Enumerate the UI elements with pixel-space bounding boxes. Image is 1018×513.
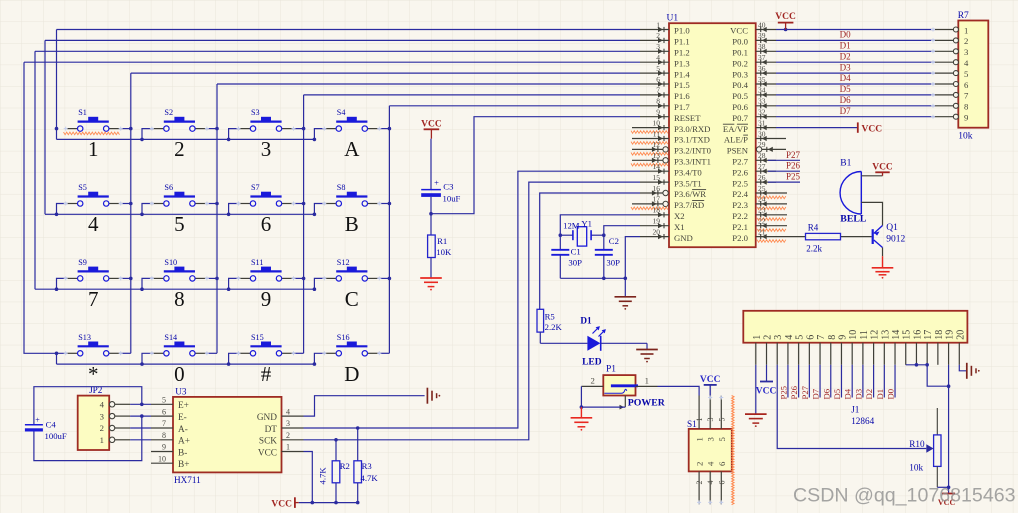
- svg-text:1: 1: [286, 443, 290, 452]
- wire S11 right link: [292, 277, 304, 279]
- switch S15: [237, 333, 296, 356]
- wire P1.3 bus: [24, 61, 640, 63]
- wire J1 pin5 stub: [798, 365, 800, 398]
- pin 14 U1 P3.4/T0: [640, 162, 702, 177]
- svg-text:C2: C2: [609, 236, 619, 246]
- wire D0: [776, 39, 935, 41]
- switch block S1 body: [689, 429, 732, 472]
- wire C4 bottom loop: [34, 416, 142, 461]
- wire S14 left stub: [142, 353, 153, 364]
- connector J1 body: [743, 311, 967, 343]
- svg-text:9012: 9012: [886, 235, 905, 245]
- wire D6: [776, 105, 935, 107]
- svg-text:HX711: HX711: [174, 475, 201, 485]
- svg-text:D2: D2: [864, 389, 874, 400]
- svg-text:11: 11: [653, 129, 660, 138]
- wire D2: [776, 61, 935, 63]
- error squiggle pin 17: [631, 207, 668, 210]
- svg-text:6: 6: [656, 75, 660, 84]
- switch S9: [64, 258, 123, 281]
- svg-text:VCC: VCC: [730, 26, 748, 36]
- svg-text:VCC: VCC: [271, 499, 292, 509]
- svg-text:D1: D1: [875, 389, 885, 400]
- svg-text:18: 18: [653, 206, 661, 215]
- led D1: [580, 316, 606, 368]
- node C2 bottom: [602, 277, 606, 281]
- svg-text:4: 4: [784, 335, 795, 340]
- svg-text:D1: D1: [840, 41, 851, 51]
- svg-text:8: 8: [964, 102, 969, 112]
- svg-text:14: 14: [653, 162, 661, 171]
- svg-text:9: 9: [964, 113, 968, 123]
- wire keypad column 1: [130, 73, 132, 353]
- svg-text:7: 7: [656, 86, 660, 95]
- pin 10 J1: [848, 330, 859, 365]
- svg-text:1: 1: [695, 418, 704, 422]
- svg-text:P3.3/INT1: P3.3/INT1: [674, 157, 711, 167]
- wire J1 pin13 stub: [883, 365, 885, 398]
- pin 32 U1 P0.7: [732, 108, 776, 123]
- svg-text:6: 6: [805, 335, 816, 340]
- pin 24 U1 P2.3: [732, 195, 787, 210]
- svg-text:6: 6: [964, 80, 969, 90]
- svg-text:8: 8: [656, 97, 660, 106]
- pin 11 U1 P3.1/TXD: [632, 129, 710, 144]
- svg-text:8: 8: [162, 431, 166, 440]
- svg-text:P2.1: P2.1: [732, 222, 748, 232]
- svg-text:E-: E-: [178, 413, 187, 423]
- svg-text:BELL: BELL: [840, 213, 867, 224]
- svg-text:22: 22: [758, 217, 766, 226]
- pin 7 J1: [816, 335, 827, 365]
- svg-text:6: 6: [717, 481, 726, 485]
- wire Q1 emitter to ground: [882, 248, 884, 257]
- svg-text:7: 7: [964, 91, 969, 101]
- svg-text:D3: D3: [853, 389, 863, 400]
- svg-text:P25: P25: [778, 386, 788, 400]
- pin 23 U1 P2.2: [732, 206, 787, 221]
- svg-text:P0.7: P0.7: [732, 113, 748, 123]
- svg-text:SCK: SCK: [259, 437, 277, 447]
- pin 10 U1 P3.0/RXD: [632, 118, 710, 133]
- svg-text:0: 0: [174, 362, 185, 386]
- svg-text:9: 9: [162, 443, 166, 452]
- switch S4: [322, 108, 381, 131]
- wire P1.1 bus: [45, 39, 640, 41]
- pin 18 U1 X2: [640, 206, 685, 221]
- pin 30 U1 ALE/P: [724, 129, 786, 144]
- svg-text:3: 3: [261, 137, 272, 161]
- svg-text:P3.5/T1: P3.5/T1: [674, 178, 702, 188]
- svg-text:D: D: [344, 362, 359, 386]
- svg-text:P27: P27: [786, 150, 801, 160]
- svg-text:P1.1: P1.1: [674, 37, 690, 47]
- svg-text:2: 2: [695, 481, 704, 485]
- pin 40 U1 VCC: [730, 20, 776, 35]
- svg-text:26: 26: [758, 173, 766, 182]
- svg-text:P26: P26: [789, 385, 799, 399]
- wire keypad row 1: [56, 30, 58, 140]
- wire bell bottom to Q1: [861, 202, 882, 225]
- svg-text:C1: C1: [571, 247, 581, 257]
- svg-text:S11: S11: [251, 258, 263, 267]
- pin 5 U1 P1.4: [640, 64, 690, 79]
- svg-text:Y1: Y1: [581, 219, 592, 229]
- svg-text:4.7K: 4.7K: [318, 467, 328, 485]
- wire to ground: [624, 278, 626, 297]
- svg-text:D7: D7: [811, 388, 821, 399]
- node gnd rail: [624, 277, 628, 281]
- wire J1 pin19 to VCC: [948, 365, 950, 494]
- svg-text:VCC: VCC: [862, 124, 883, 134]
- svg-text:10: 10: [158, 454, 166, 463]
- wire P3.4/T0 to HX711 DT: [304, 171, 641, 428]
- error squiggle pin 11: [631, 142, 668, 145]
- pin 3 J1: [773, 335, 784, 365]
- wire S10 right link: [205, 277, 217, 279]
- pin 21 U1 P2.0: [732, 227, 805, 242]
- svg-text:4: 4: [656, 53, 660, 62]
- svg-text:U1: U1: [667, 14, 679, 24]
- svg-text:GND: GND: [257, 413, 277, 423]
- svg-text:D3: D3: [840, 62, 851, 72]
- svg-text:36: 36: [758, 64, 766, 73]
- svg-text:LED: LED: [582, 358, 602, 368]
- svg-text:3: 3: [656, 42, 660, 51]
- svg-text:4: 4: [706, 481, 715, 485]
- node C3/R1: [429, 212, 433, 216]
- pin 5 U3 E+: [151, 396, 189, 412]
- ground R1: [420, 278, 442, 291]
- svg-text:P1.5: P1.5: [674, 80, 690, 90]
- pin 12 J1: [870, 330, 881, 365]
- svg-text:VCC: VCC: [421, 120, 442, 130]
- pin 35 U1 P0.4: [732, 75, 776, 90]
- ground J1 pin1: [745, 414, 767, 427]
- svg-text:38: 38: [758, 42, 766, 51]
- wire LED to ground: [601, 342, 647, 344]
- ground Q1: [872, 256, 894, 278]
- svg-text:S4: S4: [337, 108, 346, 117]
- wire J1 pin7 stub: [819, 365, 821, 398]
- pin 4 S1 bottom: [709, 471, 711, 504]
- pin 7 U1 P1.6: [640, 86, 690, 101]
- svg-text:P3.7/RD: P3.7/RD: [674, 200, 704, 210]
- resistor R1: [428, 214, 452, 278]
- pin 3 S1 top: [709, 396, 711, 429]
- wire J1 pin14 stub: [894, 365, 896, 398]
- pin 4 U1 P1.3: [640, 53, 690, 68]
- svg-text:P27: P27: [800, 385, 810, 399]
- wire J1 pin2: [766, 365, 768, 382]
- svg-text:6: 6: [162, 407, 166, 416]
- pin 6 U3 E-: [151, 407, 187, 423]
- svg-text:P0.4: P0.4: [732, 80, 748, 90]
- wire S1 right link: [119, 128, 131, 130]
- svg-text:15: 15: [902, 330, 913, 340]
- wire bell top to VCC: [861, 175, 882, 177]
- pin 17 U1 P3.7/RD: [632, 195, 704, 210]
- svg-text:19: 19: [653, 217, 661, 226]
- wire P1.5 bus: [217, 83, 640, 85]
- wire D5: [776, 94, 935, 96]
- wire JP2-4 to E+: [130, 403, 151, 405]
- power VCC top right: [775, 12, 796, 29]
- svg-text:P1.4: P1.4: [674, 69, 690, 79]
- svg-text:R5: R5: [545, 311, 555, 321]
- pin 8 U3 A+: [151, 431, 190, 447]
- svg-text:D1: D1: [580, 316, 592, 326]
- svg-text:P3.2/INT0: P3.2/INT0: [674, 146, 712, 156]
- capacitor C4: [25, 415, 67, 441]
- svg-text:12864: 12864: [851, 416, 874, 426]
- chip U3 body: [173, 397, 282, 473]
- svg-text:2: 2: [100, 423, 104, 433]
- svg-text:5: 5: [162, 396, 166, 405]
- svg-text:S15: S15: [251, 333, 264, 342]
- pin 10 U3 B+: [151, 454, 189, 470]
- wire S15 left stub: [229, 353, 240, 364]
- pin 8 J1: [827, 335, 838, 365]
- svg-text:P0.2: P0.2: [732, 58, 748, 68]
- pin 2 J1: [763, 335, 774, 365]
- pin 2 U3 SCK: [259, 431, 304, 447]
- svg-text:C: C: [345, 287, 359, 311]
- wire GND pin20: [625, 237, 640, 279]
- svg-text:11: 11: [859, 330, 870, 340]
- svg-text:10K: 10K: [436, 247, 452, 257]
- pin 20 U1 GND: [640, 227, 693, 242]
- resistor R4: [806, 223, 841, 254]
- pin 16 J1: [912, 330, 923, 365]
- resistor R2: [318, 440, 350, 503]
- wire R4 to Q1 base: [841, 236, 872, 238]
- svg-text:P1.2: P1.2: [674, 48, 690, 58]
- svg-text:15: 15: [653, 173, 661, 182]
- svg-text:#: #: [261, 362, 272, 386]
- capacitor C3: [421, 177, 460, 213]
- svg-text:20: 20: [653, 227, 661, 236]
- wire P26: [768, 170, 800, 172]
- wire P1.6 bus: [304, 94, 640, 96]
- svg-text:D2: D2: [840, 51, 851, 61]
- pin 4 U3 GND: [257, 407, 304, 423]
- pin 20 J1: [955, 330, 966, 365]
- wire S3 left stub: [229, 129, 240, 140]
- error squiggle pin 23: [757, 218, 786, 221]
- svg-text:30P: 30P: [606, 258, 620, 268]
- wire S4 left stub: [314, 129, 325, 140]
- svg-text:A-: A-: [178, 425, 188, 435]
- svg-text:5: 5: [795, 335, 806, 340]
- pin 2 S1 bottom: [698, 471, 700, 504]
- power VCC bell: [872, 162, 893, 176]
- svg-text:16: 16: [912, 330, 923, 340]
- wire P25: [768, 181, 800, 183]
- svg-text:3: 3: [773, 335, 784, 340]
- wire keypad row 3: [34, 51, 36, 289]
- svg-text:10: 10: [848, 330, 859, 340]
- resistor R3: [354, 428, 378, 503]
- switch S2: [150, 108, 209, 131]
- wire U3 VCC: [304, 452, 313, 503]
- node E-: [140, 414, 144, 418]
- svg-text:5: 5: [656, 64, 660, 73]
- wire D1: [776, 50, 935, 52]
- svg-text:E+: E+: [178, 401, 189, 411]
- node VCC pin40: [784, 28, 788, 32]
- svg-text:2: 2: [763, 335, 774, 340]
- svg-text:9: 9: [261, 287, 272, 311]
- pin 6 U1 P1.5: [640, 75, 690, 90]
- pin 16 U1 P3.6/WR: [640, 184, 706, 199]
- svg-text:Q1: Q1: [886, 223, 898, 233]
- power VCC S1 blue: [700, 375, 721, 395]
- wire S7 right link: [292, 203, 304, 205]
- node R3 bottom: [356, 501, 360, 505]
- svg-text:P0.3: P0.3: [732, 69, 748, 79]
- power VCC EA: [858, 122, 882, 134]
- svg-text:4: 4: [88, 212, 99, 236]
- pin 2 P1: [581, 385, 603, 387]
- switch S7: [237, 183, 296, 206]
- svg-text:A+: A+: [178, 437, 190, 447]
- switch S14: [150, 333, 209, 356]
- pin 1 J1: [752, 335, 763, 365]
- svg-text:P2.3: P2.3: [732, 200, 748, 210]
- switch S16: [322, 333, 381, 356]
- svg-text:13: 13: [653, 151, 661, 160]
- wire VCC rail U3: [299, 502, 358, 504]
- wire U3 GND: [304, 396, 425, 416]
- svg-text:23: 23: [758, 206, 766, 215]
- switch S13: [64, 333, 123, 356]
- pin 5 J1: [795, 335, 806, 365]
- svg-text:P2.2: P2.2: [732, 211, 748, 221]
- svg-text:R10: R10: [909, 439, 925, 449]
- pin 1 JP2: [100, 435, 130, 445]
- pin 4 JP2: [100, 400, 130, 410]
- svg-text:2: 2: [656, 31, 660, 40]
- svg-text:1: 1: [656, 20, 660, 29]
- svg-text:100uF: 100uF: [45, 431, 67, 441]
- pin 27 U1 P2.6: [732, 162, 776, 177]
- svg-text:S10: S10: [164, 258, 177, 267]
- svg-text:S14: S14: [164, 333, 177, 342]
- svg-text:5: 5: [717, 418, 726, 422]
- svg-text:1: 1: [88, 137, 99, 161]
- svg-text:R3: R3: [362, 461, 372, 471]
- wire S15 right link: [292, 352, 304, 354]
- pin 1 P1: [636, 385, 658, 387]
- wire J1 pin12 stub: [873, 365, 875, 398]
- svg-text:5: 5: [964, 69, 968, 79]
- switch S8: [322, 183, 381, 206]
- svg-text:2.2K: 2.2K: [545, 322, 563, 332]
- pin 5 S1 top: [720, 396, 722, 429]
- node crystal left: [559, 233, 563, 237]
- svg-text:14: 14: [891, 330, 902, 340]
- wire S11 left stub: [229, 278, 240, 289]
- svg-text:32: 32: [758, 108, 766, 117]
- power VCC U3 rail: [271, 497, 298, 509]
- svg-text:33: 33: [758, 97, 766, 106]
- svg-text:S13: S13: [78, 333, 91, 342]
- power VCC J1 pin2 blue: [756, 382, 777, 397]
- svg-text:P2.4: P2.4: [732, 189, 748, 199]
- svg-text:S1: S1: [78, 108, 87, 117]
- svg-text:DT: DT: [265, 425, 278, 435]
- svg-text:P0.5: P0.5: [732, 91, 748, 101]
- wire J1 pin20: [959, 365, 966, 371]
- svg-text:EA/VP: EA/VP: [723, 124, 748, 134]
- node P1 ground: [580, 405, 584, 409]
- svg-text:29: 29: [758, 140, 766, 149]
- wire J1 pin1: [755, 365, 757, 414]
- svg-text:P1.6: P1.6: [674, 91, 690, 101]
- ground J1 pin20 sideways: [967, 363, 980, 379]
- svg-text:2: 2: [964, 36, 968, 46]
- svg-text:2: 2: [174, 137, 185, 161]
- svg-text:P0.6: P0.6: [732, 102, 748, 112]
- svg-text:10uF: 10uF: [443, 193, 461, 203]
- svg-text:S9: S9: [78, 258, 87, 267]
- wire S8 left stub: [314, 204, 325, 215]
- svg-text:25: 25: [758, 184, 766, 193]
- power VCC C3 branch: [421, 120, 442, 139]
- svg-text:4: 4: [706, 461, 716, 466]
- wire J1 pin8 stub: [830, 365, 832, 398]
- svg-text:7: 7: [816, 335, 827, 340]
- pin 36 U1 P0.3: [732, 64, 776, 79]
- svg-text:A: A: [344, 137, 360, 161]
- pin 13 J1: [880, 330, 891, 365]
- pin 19 U1 X1: [640, 217, 685, 232]
- svg-text:C4: C4: [46, 419, 57, 429]
- resistor R5: [537, 309, 562, 343]
- pin 1 U1 P1.0: [640, 20, 690, 35]
- svg-text:VCC: VCC: [258, 448, 277, 458]
- pin 2 U1 P1.1: [640, 31, 690, 46]
- svg-text:S7: S7: [251, 183, 260, 192]
- pin 39 U1 P0.0: [732, 31, 776, 46]
- svg-text:7: 7: [162, 419, 166, 428]
- svg-text:3: 3: [100, 411, 104, 421]
- wire RESET to C3/R1 node: [431, 117, 640, 214]
- error squiggle pin 10: [631, 131, 668, 134]
- pin 9 U3 B-: [151, 443, 187, 459]
- wire S8 right link: [378, 203, 390, 205]
- wire S2 left stub: [142, 129, 153, 140]
- svg-text:18: 18: [934, 330, 945, 340]
- wire S12 left stub: [314, 278, 325, 289]
- svg-text:ALE/P: ALE/P: [724, 135, 748, 145]
- svg-text:1: 1: [645, 376, 649, 386]
- svg-text:RESET: RESET: [674, 113, 701, 123]
- node J1 pin19: [947, 384, 951, 388]
- switch S5: [64, 183, 123, 206]
- svg-text:D7: D7: [840, 106, 851, 116]
- svg-text:S16: S16: [337, 333, 350, 342]
- svg-text:P3.1/TXD: P3.1/TXD: [674, 135, 710, 145]
- pin 15 J1: [902, 330, 913, 365]
- wire S16 left stub: [314, 353, 325, 364]
- wire JP2-1 to A+: [130, 439, 151, 441]
- wire keypad row 2: [44, 40, 46, 214]
- wire JP2-3 to E-: [130, 415, 151, 417]
- wire S4 right link: [378, 128, 390, 130]
- pin 3 U3 DT: [265, 419, 304, 435]
